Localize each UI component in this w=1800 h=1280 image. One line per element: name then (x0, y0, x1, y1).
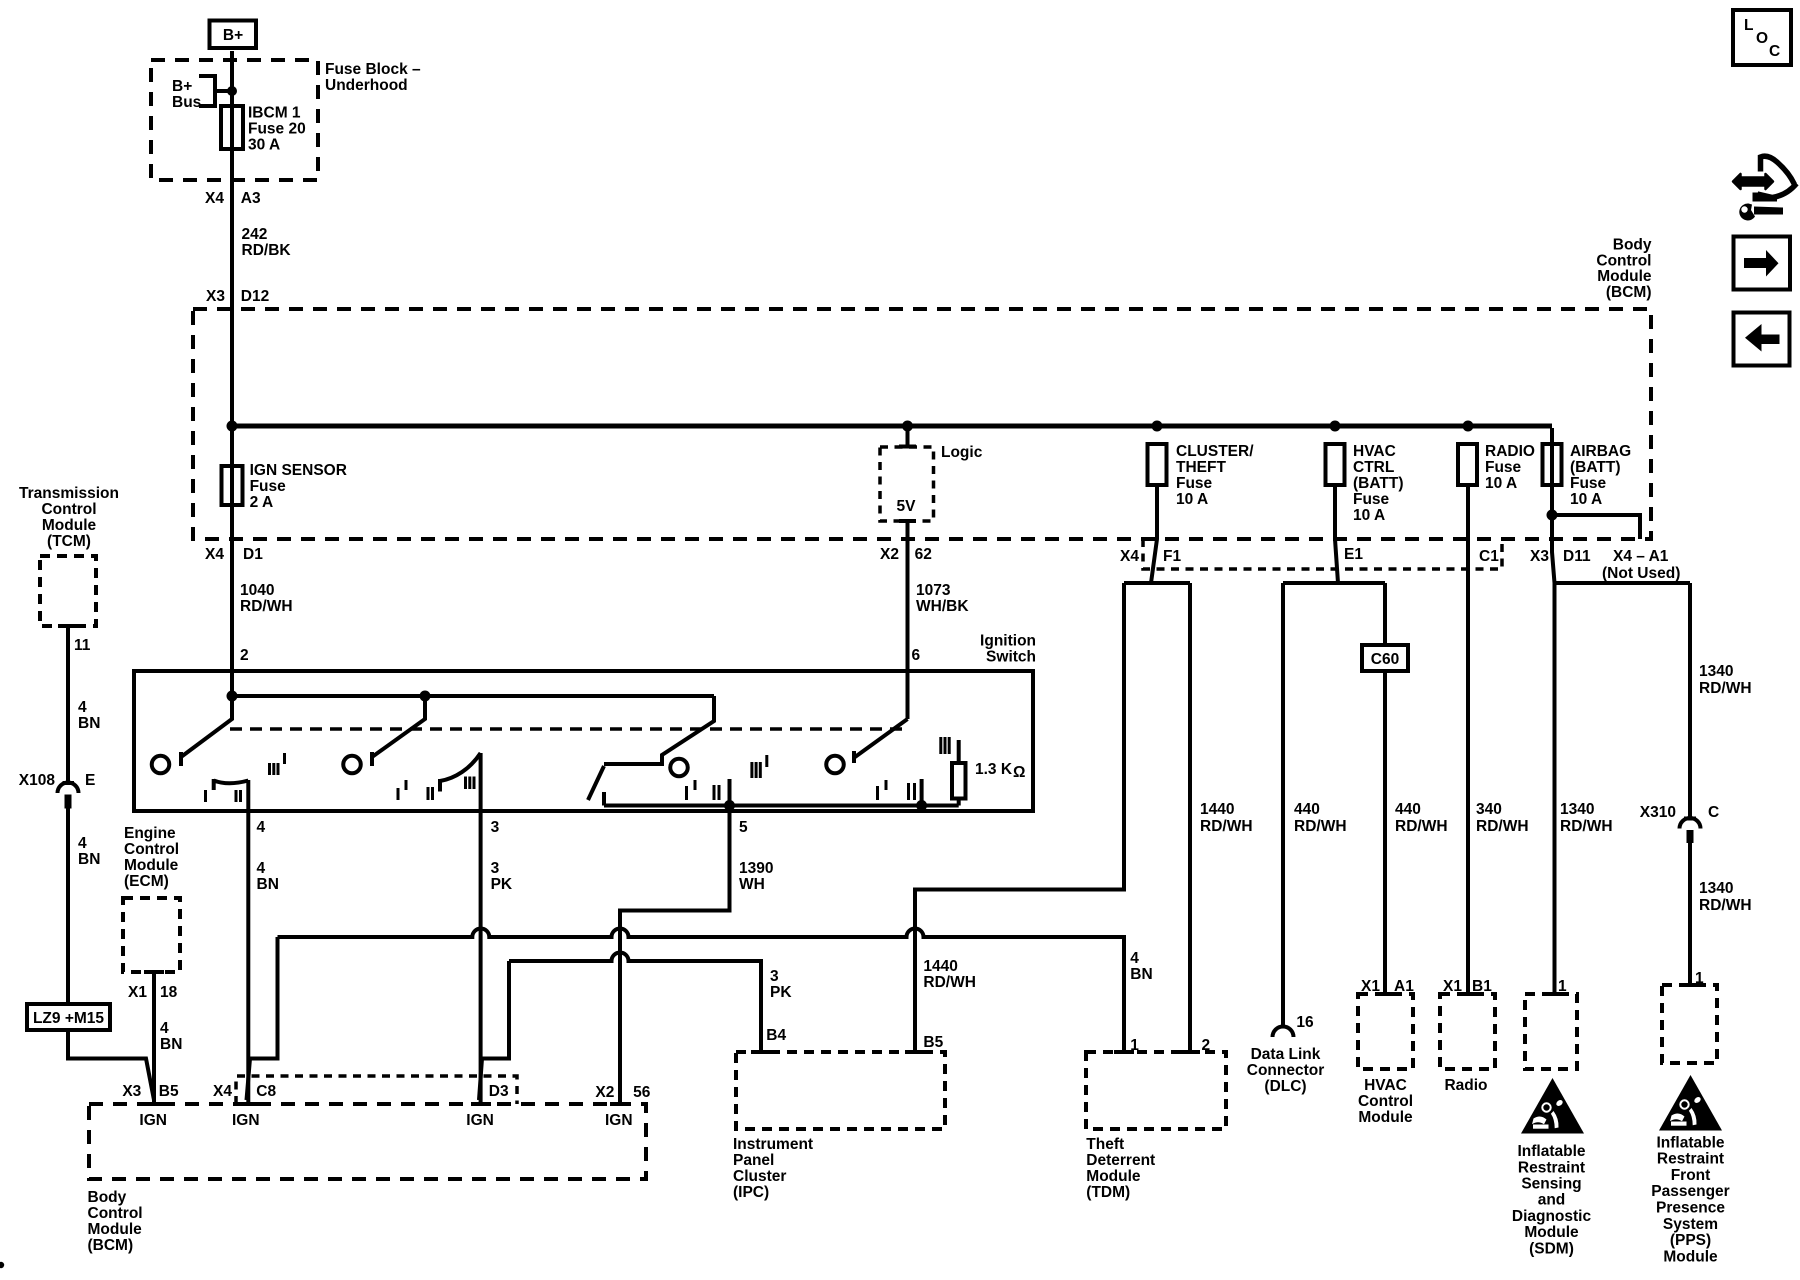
svg-text:AIRBAG: AIRBAG (1570, 443, 1631, 460)
svg-text:X4: X4 (213, 1083, 232, 1100)
svg-text:242: 242 (242, 226, 268, 243)
svg-text:440: 440 (1395, 801, 1421, 818)
svg-text:RD/WH: RD/WH (1699, 897, 1752, 914)
svg-text:Fuse: Fuse (250, 478, 287, 495)
svg-text:4: 4 (257, 819, 266, 836)
svg-text:D3: D3 (489, 1083, 509, 1100)
svg-text:E1: E1 (1344, 546, 1363, 563)
svg-text:1390: 1390 (739, 860, 773, 877)
svg-text:Restraint: Restraint (1518, 1159, 1585, 1176)
svg-text:(TCM): (TCM) (47, 533, 91, 550)
svg-text:Fuse: Fuse (1485, 459, 1522, 476)
svg-text:Connector: Connector (1247, 1062, 1325, 1079)
svg-text:B5: B5 (923, 1034, 943, 1051)
svg-text:X1: X1 (1443, 978, 1462, 995)
svg-text:IBCM 1: IBCM 1 (248, 105, 301, 122)
svg-text:D12: D12 (241, 288, 269, 305)
svg-text:B4: B4 (766, 1027, 786, 1044)
svg-text:(BATT): (BATT) (1353, 475, 1404, 492)
svg-text:X3: X3 (1530, 548, 1549, 565)
svg-text:2 A: 2 A (250, 494, 274, 511)
svg-text:1: 1 (1558, 978, 1567, 995)
svg-text:(DLC): (DLC) (1264, 1078, 1306, 1095)
svg-text:11: 11 (74, 637, 91, 654)
svg-text:1340: 1340 (1560, 801, 1594, 818)
svg-text:4: 4 (1130, 950, 1139, 967)
svg-text:IGN SENSOR: IGN SENSOR (250, 462, 347, 479)
svg-text:F1: F1 (1163, 548, 1181, 565)
svg-text:Front: Front (1671, 1167, 1711, 1184)
svg-text:Fuse: Fuse (1570, 475, 1607, 492)
svg-text:IGN: IGN (139, 1112, 167, 1129)
svg-text:16: 16 (1296, 1014, 1314, 1031)
svg-text:RD/WH: RD/WH (1200, 818, 1253, 835)
svg-text:Module: Module (42, 517, 97, 534)
svg-text:E: E (85, 772, 95, 789)
svg-text:1.3 K: 1.3 K (975, 761, 1013, 778)
svg-text:Radio: Radio (1444, 1077, 1487, 1094)
svg-text:RD/WH: RD/WH (1560, 818, 1613, 835)
svg-text:Presence: Presence (1656, 1200, 1725, 1217)
svg-text:(BCM): (BCM) (88, 1237, 134, 1254)
svg-text:Underhood: Underhood (325, 77, 408, 94)
svg-text:Module: Module (1524, 1224, 1579, 1241)
svg-text:2: 2 (240, 647, 249, 664)
svg-text:Control: Control (41, 501, 96, 518)
svg-text:RD/WH: RD/WH (240, 598, 293, 615)
svg-text:X310: X310 (1640, 804, 1676, 821)
svg-text:X1: X1 (1361, 978, 1380, 995)
svg-text:X4: X4 (1120, 548, 1139, 565)
svg-text:Deterrent: Deterrent (1086, 1152, 1155, 1169)
svg-text:B+: B+ (172, 78, 192, 95)
svg-text:B+: B+ (223, 27, 243, 44)
svg-text:THEFT: THEFT (1176, 459, 1226, 476)
svg-text:Engine: Engine (124, 825, 176, 842)
svg-text:(BATT): (BATT) (1570, 459, 1621, 476)
svg-text:(IPC): (IPC) (733, 1184, 769, 1201)
svg-text:C: C (1708, 804, 1719, 821)
svg-text:6: 6 (912, 647, 921, 664)
svg-text:X4: X4 (205, 190, 224, 207)
svg-text:2: 2 (1202, 1037, 1211, 1054)
svg-text:Data Link: Data Link (1251, 1046, 1321, 1063)
svg-text:Fuse: Fuse (1176, 475, 1213, 492)
svg-text:X1: X1 (128, 984, 147, 1001)
svg-text:C: C (1769, 43, 1780, 60)
svg-text:HVAC: HVAC (1353, 443, 1396, 460)
svg-text:Ω: Ω (1013, 764, 1025, 781)
svg-text:4: 4 (78, 835, 87, 852)
svg-text:X2: X2 (595, 1084, 614, 1101)
svg-text:C8: C8 (256, 1083, 276, 1100)
svg-text:440: 440 (1294, 801, 1320, 818)
svg-text:Theft: Theft (1086, 1136, 1124, 1153)
svg-text:X3: X3 (122, 1083, 141, 1100)
svg-text:(SDM): (SDM) (1529, 1240, 1574, 1257)
svg-text:A1: A1 (1394, 978, 1414, 995)
svg-text:X108: X108 (19, 772, 56, 789)
svg-text:X2: X2 (880, 546, 899, 563)
svg-text:and: and (1538, 1192, 1566, 1209)
svg-text:PK: PK (770, 984, 792, 1001)
svg-text:(TDM): (TDM) (1086, 1184, 1130, 1201)
svg-text:Fuse Block –: Fuse Block – (325, 61, 421, 78)
svg-text:Instrument: Instrument (733, 1136, 813, 1153)
svg-text:IGN: IGN (232, 1112, 260, 1129)
svg-text:RD/WH: RD/WH (1294, 818, 1347, 835)
svg-text:Fuse: Fuse (1353, 491, 1390, 508)
svg-text:CLUSTER/: CLUSTER/ (1176, 443, 1254, 460)
svg-text:BN: BN (1130, 966, 1152, 983)
svg-text:Passenger: Passenger (1651, 1183, 1729, 1200)
svg-text:RD/WH: RD/WH (923, 974, 976, 991)
svg-text:Inflatable: Inflatable (1517, 1143, 1585, 1160)
svg-text:RD/BK: RD/BK (242, 242, 292, 259)
svg-text:(PPS): (PPS) (1670, 1232, 1711, 1249)
svg-text:RD/WH: RD/WH (1699, 680, 1752, 697)
svg-text:WH/BK: WH/BK (916, 598, 969, 615)
svg-text:1340: 1340 (1699, 663, 1733, 680)
svg-text:Control: Control (88, 1205, 143, 1222)
svg-text:4: 4 (78, 699, 87, 716)
svg-text:5: 5 (739, 819, 748, 836)
svg-text:Switch: Switch (986, 649, 1036, 666)
svg-text:10 A: 10 A (1176, 491, 1208, 508)
svg-text:Logic: Logic (941, 444, 983, 461)
svg-text:Module: Module (1597, 268, 1652, 285)
svg-text:Module: Module (88, 1221, 143, 1238)
svg-text:LZ9 +M15: LZ9 +M15 (33, 1010, 104, 1027)
svg-text:RADIO: RADIO (1485, 443, 1535, 460)
svg-text:O: O (1756, 30, 1768, 47)
svg-text:X4: X4 (205, 546, 224, 563)
svg-text:Panel: Panel (733, 1152, 774, 1169)
svg-text:IGN: IGN (605, 1112, 633, 1129)
svg-text:BN: BN (78, 851, 100, 868)
svg-text:3: 3 (491, 819, 500, 836)
svg-text:18: 18 (160, 984, 178, 1001)
svg-text:4: 4 (160, 1020, 169, 1037)
svg-text:B5: B5 (159, 1083, 179, 1100)
svg-text:1340: 1340 (1699, 880, 1733, 897)
svg-text:Ignition: Ignition (980, 633, 1036, 650)
svg-text:D1: D1 (243, 546, 263, 563)
svg-text:System: System (1663, 1216, 1718, 1233)
svg-text:C60: C60 (1371, 651, 1399, 668)
svg-text:Sensing: Sensing (1521, 1176, 1581, 1193)
svg-text:D11: D11 (1563, 548, 1591, 565)
svg-text:Control: Control (1358, 1093, 1413, 1110)
svg-text:RD/WH: RD/WH (1395, 818, 1448, 835)
svg-text:CTRL: CTRL (1353, 459, 1394, 476)
svg-text:1: 1 (1695, 970, 1704, 987)
svg-text:Module: Module (1663, 1248, 1718, 1265)
svg-text:Body: Body (88, 1189, 127, 1206)
svg-text:3: 3 (491, 860, 500, 877)
svg-text:Control: Control (1596, 252, 1651, 269)
svg-text:PK: PK (491, 876, 513, 893)
svg-text:Body: Body (1613, 237, 1652, 254)
svg-text:Module: Module (1086, 1168, 1141, 1185)
svg-text:(ECM): (ECM) (124, 873, 169, 890)
svg-text:Control: Control (124, 841, 179, 858)
svg-text:BN: BN (257, 876, 279, 893)
svg-text:56: 56 (633, 1084, 651, 1101)
svg-text:Bus: Bus (172, 94, 201, 111)
svg-text:Module: Module (124, 857, 179, 874)
svg-text:Fuse 20: Fuse 20 (248, 121, 306, 138)
svg-text:Inflatable: Inflatable (1656, 1134, 1724, 1151)
svg-text:5V: 5V (897, 498, 917, 515)
svg-text:3: 3 (770, 968, 779, 985)
svg-text:Module: Module (1358, 1109, 1413, 1126)
svg-text:340: 340 (1476, 801, 1502, 818)
svg-text:X4 – A1: X4 – A1 (1613, 548, 1669, 565)
svg-text:(BCM): (BCM) (1606, 284, 1652, 301)
svg-text:BN: BN (78, 715, 100, 732)
svg-text:BN: BN (160, 1036, 182, 1053)
svg-text:1: 1 (1130, 1037, 1139, 1054)
svg-text:10 A: 10 A (1485, 475, 1517, 492)
svg-text:62: 62 (915, 546, 932, 563)
svg-text:Restraint: Restraint (1657, 1151, 1724, 1168)
svg-text:1440: 1440 (1200, 801, 1234, 818)
svg-text:B1: B1 (1472, 978, 1492, 995)
svg-text:Transmission: Transmission (19, 485, 119, 502)
svg-text:IGN: IGN (466, 1112, 494, 1129)
svg-text:RD/WH: RD/WH (1476, 818, 1529, 835)
svg-text:L: L (1744, 17, 1753, 34)
svg-text:1073: 1073 (916, 582, 951, 599)
svg-text:HVAC: HVAC (1364, 1077, 1407, 1094)
svg-text:(Not Used): (Not Used) (1602, 565, 1680, 582)
svg-text:30 A: 30 A (248, 137, 280, 154)
svg-text:4: 4 (257, 860, 266, 877)
svg-text:A3: A3 (241, 190, 261, 207)
svg-text:1040: 1040 (240, 582, 274, 599)
svg-text:WH: WH (739, 876, 765, 893)
svg-text:X3: X3 (206, 288, 225, 305)
svg-text:Cluster: Cluster (733, 1168, 786, 1185)
svg-text:10 A: 10 A (1353, 507, 1385, 524)
svg-text:1440: 1440 (923, 958, 957, 975)
svg-text:C1: C1 (1479, 548, 1499, 565)
svg-text:Diagnostic: Diagnostic (1512, 1208, 1592, 1225)
svg-text:10 A: 10 A (1570, 491, 1602, 508)
